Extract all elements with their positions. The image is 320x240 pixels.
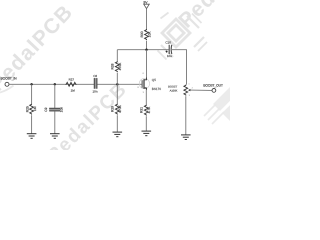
wire R25 to ground <box>31 115 33 133</box>
wire 9V to R30 <box>146 9 148 29</box>
power 9V <box>143 1 149 9</box>
ground under R29 <box>113 132 123 137</box>
svg-text:BOOST: BOOST <box>168 86 177 89</box>
svg-text:C10: C10 <box>165 41 171 45</box>
svg-text:C9: C9 <box>44 107 48 111</box>
capacitor C9 <box>44 107 63 113</box>
svg-text:10K: 10K <box>147 31 151 38</box>
svg-text:10n: 10n <box>59 107 63 113</box>
watermark text PedalPCB top-left <box>0 0 78 96</box>
capacitor C10 <box>165 41 172 59</box>
wire BOOST_IN to C8 <box>9 83 94 85</box>
wire rail corner to R28 <box>116 50 118 61</box>
svg-text:R30: R30 <box>140 31 144 37</box>
capacitor C8 <box>93 74 98 93</box>
wire down to R25 <box>31 84 33 103</box>
watermark diamond logo bottom-right corner <box>204 87 247 124</box>
watermark text PedalPCB bottom-center <box>44 78 132 166</box>
svg-text:10u: 10u <box>167 54 172 58</box>
resistor R29 <box>111 104 123 115</box>
svg-text:BOOST_IN: BOOST_IN <box>1 77 18 81</box>
ground under R31 <box>142 131 152 136</box>
svg-text:1M: 1M <box>71 89 76 93</box>
svg-text:470K: 470K <box>118 62 122 71</box>
wire rail top <box>117 49 169 51</box>
potentiometer BOOST A100K <box>168 83 193 98</box>
resistor R28 <box>111 61 123 72</box>
svg-text:1M: 1M <box>33 106 37 111</box>
wire R29 to ground <box>116 115 118 132</box>
svg-text:Q5: Q5 <box>152 78 156 82</box>
resistor R31 <box>140 105 152 116</box>
wire R28 to junction <box>116 73 118 104</box>
svg-text:C8: C8 <box>93 74 97 78</box>
ground under R25 <box>27 134 37 139</box>
ground under C9 <box>50 134 60 139</box>
wire wiper to BOOST_OUT <box>190 89 212 91</box>
wire C8 to gate Q5 <box>97 83 140 85</box>
node BOOST_OUT <box>203 83 223 92</box>
wire C10 to pot corner <box>172 50 187 85</box>
wire source to R31 <box>145 90 147 105</box>
wire R31 to ground <box>145 116 147 131</box>
node junction dot at R25 <box>30 83 32 85</box>
node BOOST_IN <box>1 77 18 87</box>
wire rail to drain <box>146 50 148 77</box>
svg-text:R28: R28 <box>111 63 115 69</box>
svg-text:10n: 10n <box>93 90 98 94</box>
wire R30 to rail <box>146 41 148 50</box>
watermark partial letter left edge <box>0 86 14 93</box>
svg-text:470K: 470K <box>118 104 122 113</box>
transistor Q5 BS170 <box>137 72 161 94</box>
resistor R30 <box>140 29 152 40</box>
wire C9 to ground <box>54 111 56 133</box>
wire down to C9 <box>54 84 56 108</box>
watermark diamond logo center-right <box>158 13 208 60</box>
svg-text:R31: R31 <box>140 107 144 113</box>
watermark text PedalPCB top-right <box>174 0 268 33</box>
wire pot to ground <box>185 96 187 135</box>
svg-text:R29: R29 <box>111 106 115 112</box>
node junction dot at C9 <box>54 83 56 85</box>
svg-text:R27: R27 <box>69 77 75 81</box>
node junction dot rail <box>145 49 147 51</box>
svg-text:4.7K: 4.7K <box>147 106 151 114</box>
node junction dot at divider <box>116 83 118 85</box>
svg-text:R25: R25 <box>25 106 29 112</box>
svg-text:A100K: A100K <box>170 89 178 92</box>
ground under pot <box>181 135 191 140</box>
resistor R27 <box>66 77 77 92</box>
resistor R25 <box>25 104 37 115</box>
svg-text:BOOST_OUT: BOOST_OUT <box>203 83 223 87</box>
svg-text:BS170: BS170 <box>152 87 162 91</box>
